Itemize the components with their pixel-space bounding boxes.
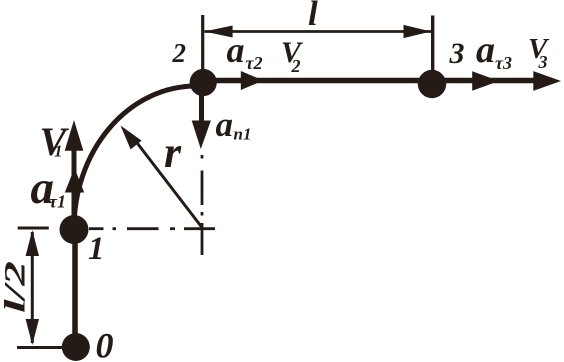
svg-text:n1: n1 <box>234 125 252 144</box>
svg-text:τ2: τ2 <box>246 53 263 73</box>
svg-text:a: a <box>227 30 245 70</box>
arrow V3 head at right end <box>533 71 561 91</box>
svg-text:a: a <box>216 105 234 144</box>
dimension l/2 tick at node 1 level <box>18 227 49 230</box>
svg-text:τ3: τ3 <box>495 53 512 73</box>
wire arc 1-2 radius r <box>74 86 196 229</box>
arrow a_n1 shaft (down from node 2) <box>199 95 204 125</box>
arrow V1 head <box>65 120 84 151</box>
node 1 <box>60 215 89 244</box>
dimension l line <box>205 30 432 33</box>
centre line vertical: cross solid segment <box>201 223 204 255</box>
svg-text:3: 3 <box>538 52 548 72</box>
svg-text:3: 3 <box>449 37 465 70</box>
node 3 <box>418 70 446 98</box>
centre line horizontal dash-dot: dot <box>170 227 175 230</box>
dimension l/2 line <box>31 232 34 343</box>
arrow a_tau2 head on line 2-3 <box>241 71 264 90</box>
wire path 2-3 horizontal <box>204 78 541 84</box>
dimension l/2 tick at node 0 level <box>17 346 62 349</box>
arrow a_n1 head <box>192 121 211 150</box>
radius r arrow shaft from centre cross to arc <box>131 135 202 228</box>
dimension l left arrow <box>204 26 232 38</box>
svg-text:1: 1 <box>54 142 63 161</box>
svg-text:τ1: τ1 <box>49 192 66 212</box>
svg-text:a: a <box>476 29 495 71</box>
arrow a_tau3 head after node 3 <box>472 71 499 91</box>
centre line horizontal dash-dot: dash <box>89 227 104 230</box>
svg-text:2: 2 <box>172 38 187 68</box>
arrow a_tau1 head (up, shorter) <box>65 168 84 193</box>
centre line horizontal dash-dot: dot <box>113 227 117 230</box>
svg-text:l: l <box>308 0 318 33</box>
dimension l/2 top arrow <box>26 230 39 256</box>
centre line vertical dash-dot: dot <box>201 212 204 216</box>
centre line horizontal: cross solid segment <box>184 227 215 230</box>
dimension l extension line above node 3 <box>431 16 434 71</box>
svg-text:2: 2 <box>291 56 301 76</box>
centre line vertical dash-dot: dash <box>201 171 204 206</box>
svg-text:1: 1 <box>88 231 105 267</box>
dimension l extension line above node 2 <box>201 15 204 70</box>
centre line horizontal dash-dot: dash <box>127 227 159 230</box>
wire path 0-1 vertical <box>72 230 78 348</box>
svg-text:0: 0 <box>96 326 114 362</box>
svg-text:r: r <box>164 128 182 177</box>
node 2 <box>190 69 217 96</box>
centre line vertical dash-dot: dot <box>201 155 204 159</box>
svg-text:l/2: l/2 <box>0 261 32 313</box>
radius r arrow head <box>121 126 142 150</box>
dimension l right arrow <box>404 25 431 38</box>
arrow V1 shaft at node 1 (up) <box>72 145 77 229</box>
dimension l/2 bottom arrow <box>26 319 39 345</box>
node 0 <box>62 333 90 361</box>
